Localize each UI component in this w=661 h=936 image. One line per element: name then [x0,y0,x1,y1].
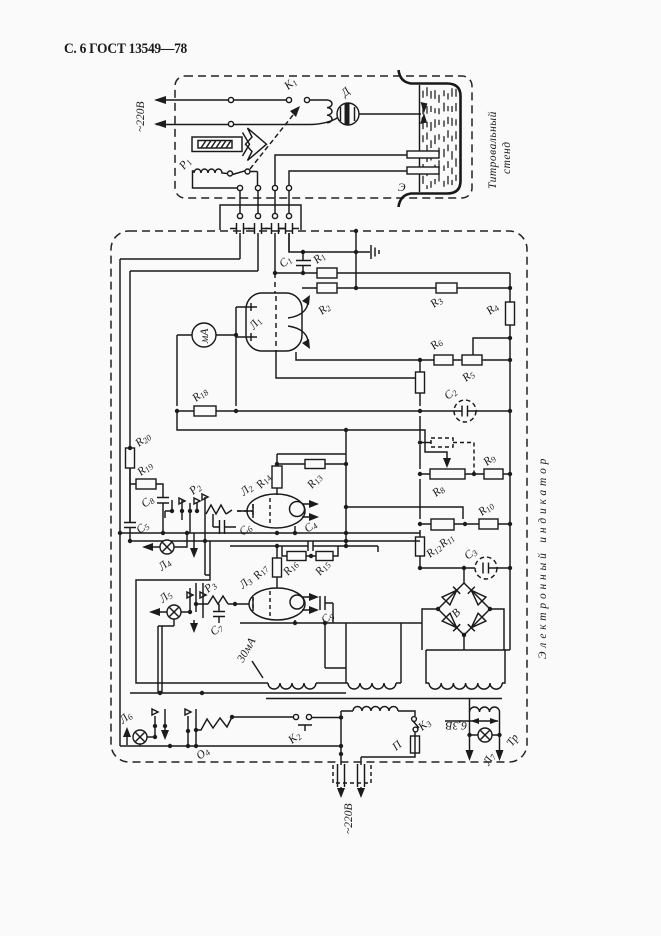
svg-text:Д: Д [338,85,353,100]
svg-text:Л5: Л5 [156,588,174,606]
svg-text:С2: С2 [442,385,460,403]
svg-text:К2: К2 [285,729,304,748]
svg-text:стенд: стенд [501,141,513,174]
svg-text:6,3В: 6,3В [446,719,467,731]
svg-text:С1: С1 [277,253,294,271]
svg-text:Тр: Тр [505,732,522,749]
svg-text:R8: R8 [429,482,447,500]
svg-text:R3: R3 [427,294,445,312]
svg-text:К1: К1 [281,75,299,93]
svg-text:Р1: Р1 [176,156,194,174]
svg-text:Л4: Л4 [155,556,174,575]
svg-text:мА: мА [199,328,211,344]
svg-text:R2: R2 [315,300,333,318]
svg-text:R5: R5 [459,368,477,386]
svg-text:30мА: 30мА [235,635,259,665]
svg-text:Электронный индикатор: Электронный индикатор [536,455,549,659]
svg-text:С9: С9 [319,609,337,627]
svg-text:С7: С7 [208,621,226,639]
svg-text:~220В: ~220В [135,102,147,133]
svg-text:П: П [389,738,404,754]
svg-text:R4: R4 [483,300,501,318]
svg-text:R20: R20 [132,430,154,451]
svg-text:С3: С3 [462,545,479,563]
svg-text:С6: С6 [237,521,255,539]
svg-text:R10: R10 [475,499,497,520]
svg-text:R6: R6 [427,335,445,353]
svg-text:Э: Э [398,182,406,194]
svg-text:С. 6 ГОСТ 13549—78: С. 6 ГОСТ 13549—78 [64,42,187,57]
svg-text:Л3: Л3 [236,574,254,592]
svg-text:Л7: Л7 [481,750,499,768]
svg-text:~220В: ~220В [343,804,355,835]
svg-text:R17: R17 [250,562,271,584]
svg-text:К3: К3 [415,716,433,734]
svg-text:R13: R13 [304,471,325,492]
svg-text:R18: R18 [189,385,211,406]
svg-text:R9: R9 [480,451,498,469]
svg-text:R15: R15 [312,558,333,579]
svg-text:С5: С5 [134,519,151,537]
svg-text:R19: R19 [134,459,156,480]
svg-text:Л1: Л1 [246,315,264,333]
svg-text:С8: С8 [139,493,157,511]
svg-text:Титровальный: Титровальный [486,111,499,189]
